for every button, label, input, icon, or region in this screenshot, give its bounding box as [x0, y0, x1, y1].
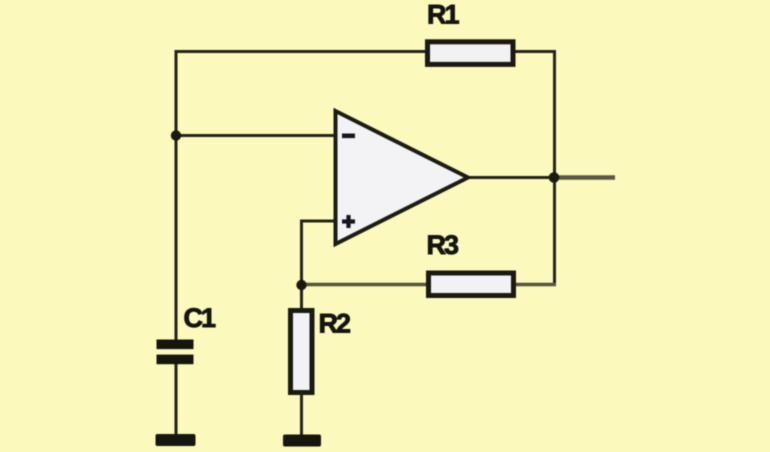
ground under R2: [283, 435, 321, 447]
plus pin marker: [342, 215, 355, 228]
wire right rail vertical from R1 down to R3: [553, 50, 556, 285]
wire top feedback from node A to R1 and to right rail: [176, 50, 555, 53]
resistor R1: [427, 0, 513, 64]
svg-text:R1: R1: [427, 0, 459, 30]
resistor R3: [427, 230, 514, 296]
ground under C1: [156, 434, 196, 446]
wire node C to R3 left: [302, 283, 427, 287]
resistor R2: [291, 309, 350, 393]
wire inverting input from node A to op-amp: [176, 134, 337, 137]
wire op-amp output to node B: [468, 176, 554, 179]
svg-text:R2: R2: [319, 309, 350, 339]
wire R2 bottom to ground: [300, 393, 303, 436]
wire output stub right of node B: [554, 175, 615, 180]
node C junction dot: [296, 280, 306, 290]
svg-text:R3: R3: [427, 230, 459, 260]
op-amp U1: [336, 111, 469, 244]
svg-text:C1: C1: [184, 303, 216, 333]
capacitor C1: [157, 303, 216, 364]
minus pin marker: [342, 134, 355, 139]
wire C1 bottom to ground: [175, 364, 178, 436]
wire non-inverting input from node C up to op-amp: [302, 221, 337, 308]
wire R3 right to right rail: [516, 283, 556, 287]
wire left rail vertical from top corner through node A down to C1: [175, 50, 178, 340]
node A junction dot inverting input: [171, 130, 181, 140]
node B output junction dot: [549, 172, 560, 183]
